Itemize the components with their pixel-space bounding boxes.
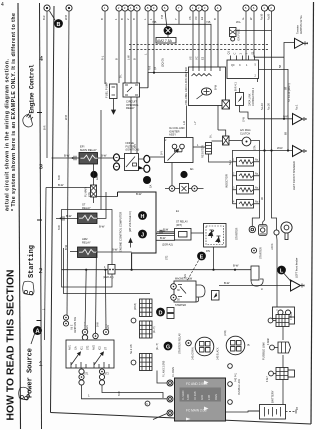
wire horizontal y187 (46, 187, 91, 189)
wire long vertical to fuel circuit (100, 110, 102, 210)
diode symbol 2 (216, 236, 221, 243)
wire igniter right to resistor (193, 146, 209, 148)
round connector A face (195, 337, 214, 356)
long wire y196 to ECU1 (97, 196, 118, 198)
svg-text:E2: E2 (200, 16, 204, 20)
white circled numbers (131, 318, 136, 365)
svg-text:4: 4 (39, 56, 43, 64)
vertical wire x46 down to switch area (45, 188, 47, 341)
svg-text:INJECTOR: INJECTOR (225, 174, 229, 188)
svg-text:B-W: B-W (112, 248, 118, 252)
igniter switch arm (168, 149, 179, 161)
svg-text:(2L-T): (2L-T) (153, 326, 156, 333)
svg-text:B-L: B-L (210, 134, 213, 138)
wire into relay3 (70, 251, 78, 253)
wire fusebox to link2 (282, 319, 284, 341)
svg-text:VC: VC (194, 16, 198, 20)
svg-text:STARTER: STARTER (235, 228, 239, 240)
svg-text:F AM2: F AM2 (267, 338, 270, 345)
svg-text:A: A (35, 329, 40, 335)
svg-text:W-R: W-R (283, 115, 289, 119)
speaker4 triangle top right (295, 38, 309, 48)
leader from circle1 to B (50, 11, 56, 20)
svg-text:IGN FUSE: IGN FUSE (237, 28, 241, 41)
engine control computer box top right (227, 60, 259, 79)
svg-text:3: 3 (39, 164, 43, 172)
circle stem comp2 (270, 345, 278, 350)
starter signal X component (223, 136, 230, 145)
wire from circle16 to ECC box (245, 11, 247, 60)
callout circle H (138, 211, 147, 220)
connector circle 16 (243, 5, 249, 11)
svg-text:W-L: W-L (236, 20, 242, 24)
circled junction number on wire (145, 401, 150, 406)
AM2 relay gray box (78, 247, 98, 258)
svg-text:B-W: B-W (58, 175, 61, 180)
wire ECC right to speaker feed (259, 69, 289, 150)
wire y72 cross run (148, 73, 189, 88)
VAFM resistor zigzag (192, 74, 212, 77)
ground dot EA right (143, 176, 151, 184)
ignition switch column labels (69, 344, 108, 350)
junction dot (287, 149, 289, 151)
wire stub fuse to run (167, 35, 169, 38)
svg-text:ST2: ST2 (105, 373, 110, 376)
ignition terminals above box (82, 329, 108, 340)
junction comb connector 1 (140, 299, 153, 317)
junction comb connector 2 (140, 321, 153, 338)
wire from circle2 down to ignition area (67, 11, 69, 316)
starter plunger hook (196, 285, 205, 302)
fusible link comp3 (276, 368, 295, 380)
injector No.3 (233, 186, 260, 195)
ECC pin stubs (231, 56, 255, 61)
igniter internal coil circles (172, 144, 177, 149)
wire ign col2 to ECU (102, 385, 163, 398)
ECU gray box (175, 378, 226, 421)
connector circle 9 (151, 5, 157, 11)
dash-dot line from E (187, 261, 199, 282)
A/C magnetic clutch label (240, 129, 251, 135)
svg-text:L-Y: L-Y (194, 121, 197, 125)
svg-text:RELAY: RELAY (126, 106, 135, 110)
svg-text:RESISTOR: RESISTOR (202, 145, 205, 158)
wire ECU right to battery (226, 411, 260, 412)
svg-text:R-B: R-B (149, 65, 152, 70)
speaker3 feed wire (219, 285, 291, 287)
injector tiny labels (255, 159, 261, 204)
wire from circle10 to fuse (165, 11, 167, 26)
connector circle 6 (128, 5, 134, 11)
svg-text:E: E (200, 255, 204, 261)
F40 F41 fusible labels (235, 372, 241, 395)
svg-text:2: 2 (39, 268, 43, 276)
fusebox with two circles (273, 307, 295, 319)
svg-text:B-W: B-W (136, 192, 142, 196)
wire bus down to starter motor shapes (253, 266, 255, 270)
svg-text:W-B: W-B (64, 15, 68, 20)
FL MAIN component (91, 185, 97, 203)
diagram frame right (311, 2, 314, 424)
svg-text:No.3: No.3 (255, 187, 261, 190)
svg-text:(2B-B): (2B-B) (134, 303, 137, 310)
FL MAIN label (84, 187, 91, 197)
fuel pump box (110, 84, 118, 99)
column tick between 4 and 3 (37, 112, 42, 114)
ECU right small circles (228, 364, 233, 405)
car icon power source (19, 387, 29, 400)
svg-text:EA1: EA1 (96, 175, 99, 180)
wire link2 to link3 (282, 355, 284, 368)
wire from circle14 to air flow meter (204, 11, 206, 67)
battery right dashed stub (286, 410, 297, 414)
svg-text:Y-B: Y-B (206, 20, 211, 24)
A/C clutch motor circle (242, 137, 251, 146)
svg-text:No.2: No.2 (255, 173, 261, 176)
ECU left terminal 3 (167, 410, 173, 416)
svg-text:R-W: R-W (163, 228, 169, 232)
svg-text:FUEL PUMP: FUEL PUMP (105, 82, 109, 98)
svg-text:FC MAIN 2.0B: FC MAIN 2.0B (186, 409, 207, 413)
svg-text:F/L MAIN: F/L MAIN (172, 367, 175, 377)
wire comb3 to terminal1 (157, 371, 167, 384)
svg-text:VS: VS (188, 16, 192, 20)
wire diode box to bus (213, 247, 215, 270)
svg-text:B-W: B-W (97, 322, 100, 327)
speaker2 feed wire (233, 150, 293, 152)
key ring symbol (281, 222, 292, 240)
connector circle 12 (190, 5, 196, 11)
wire horizontal upper Y-B run (148, 24, 211, 67)
junction dot (153, 72, 155, 74)
wire from circle7 (136, 11, 138, 153)
injector stub labels (233, 159, 235, 204)
connector circle 2 (66, 5, 72, 11)
wire from circle12 to air flow meter (192, 11, 194, 67)
svg-text:VC: VC (195, 56, 199, 60)
svg-text:I1A: I1A (75, 346, 78, 350)
diagram frame left (51, 6, 55, 413)
connector component on bus (108, 265, 115, 275)
wires ECU1 right side (156, 232, 175, 234)
svg-text:Y-B: Y-B (152, 20, 157, 24)
svg-text:F MAIN: F MAIN (290, 312, 293, 320)
ignition bottom contact ticks (71, 362, 109, 368)
svg-text:B: B (132, 18, 136, 20)
connector circle 17 (251, 5, 257, 11)
connector circle 4 (116, 5, 122, 11)
svg-text:E2: E2 (201, 56, 205, 60)
VAFM wiper arm (197, 93, 205, 99)
diode inner dashed box (206, 226, 224, 245)
svg-text:CLUTCH: CLUTCH (240, 132, 250, 135)
EFI main relay gray box (79, 153, 98, 165)
svg-text:FP: FP (155, 67, 158, 70)
ST relay gray box (78, 213, 98, 224)
wire relay1 down to FL component (93, 164, 95, 185)
ground dot under relay1 (90, 171, 97, 178)
svg-text:No.1: No.1 (295, 104, 299, 110)
measure arrow (129, 239, 132, 248)
battery box (260, 405, 286, 420)
svg-text:B: B (120, 18, 124, 20)
svg-text:No.2 J/B: No.2 J/B (130, 344, 133, 354)
connector circle 3 (102, 5, 108, 11)
circle stem comp1 (268, 318, 276, 323)
junction block enclosure (62, 210, 113, 288)
resistor vertical component (206, 143, 212, 155)
svg-text:ST2: ST2 (166, 255, 169, 260)
svg-text:CONNECTOR 1: CONNECTOR 1 (252, 87, 255, 106)
wire ign col1 to ECU terminal2 (82, 385, 167, 399)
tiny pin labels under top circles (42, 13, 271, 20)
assorted wire color labels middle (42, 53, 288, 310)
wire relay3 branch down (95, 252, 98, 334)
callout circle G (164, 342, 173, 351)
svg-text:VOLUME AIR FLOW METER: VOLUME AIR FLOW METER (184, 67, 188, 105)
svg-text:B: B (213, 18, 217, 20)
column tick between 2 and 1 (37, 320, 42, 322)
connector circle 19 (268, 5, 274, 11)
starter label texts (175, 278, 193, 308)
svg-text:STARTER RELAY: STARTER RELAY (178, 333, 182, 354)
svg-text:B-R: B-R (43, 125, 47, 130)
svg-text:VS: VS (189, 56, 193, 60)
connector circle 5 (122, 5, 128, 11)
check connector circle left (169, 186, 175, 192)
svg-text:No.1: No.1 (255, 159, 261, 162)
callout circle E (197, 252, 206, 261)
connector marks relay1 left (74, 156, 76, 160)
svg-text:B-W: B-W (118, 391, 121, 396)
I and E ignition sw label (71, 317, 78, 333)
title separator line (18, 3, 21, 429)
svg-text:68: 68 (284, 86, 288, 90)
wire circle15 to X component (218, 130, 226, 136)
svg-text:R-L: R-L (101, 55, 105, 60)
small component with X (222, 100, 230, 109)
pointing hand icon (23, 114, 33, 128)
svg-text:140 (GRAY): 140 (GRAY) (192, 347, 195, 360)
diode symbol 1 (209, 230, 215, 238)
check connector wires (165, 188, 204, 190)
svg-text:B-W: B-W (224, 281, 230, 285)
svg-text:B: B (133, 58, 137, 60)
svg-text:140 BLACK: 140 BLACK (217, 347, 220, 360)
ground symbol under fuel pump (112, 99, 116, 115)
svg-text:* The system shown here is an: * The system shown here is an EXAMPLE ON… (11, 13, 17, 211)
svg-text:(2L-T): (2L-T) (156, 343, 159, 350)
dashed bus line 1 (129, 44, 268, 46)
svg-text:B-W: B-W (64, 154, 70, 158)
header separator line (40, 3, 42, 429)
svg-text:J: J (141, 233, 144, 239)
callout circle J (138, 230, 147, 239)
connector round double circle (249, 226, 255, 232)
svg-text:B-L: B-L (120, 74, 123, 78)
wire relay1 to terminals (98, 157, 114, 159)
svg-text:ASSY: ASSY (169, 133, 176, 137)
svg-text:B-W: B-W (58, 183, 64, 187)
svg-text:EA: EA (150, 184, 153, 188)
svg-text:B-R: B-R (42, 15, 46, 20)
wire from circle9 (153, 11, 155, 73)
svg-text:B: B (57, 22, 61, 28)
svg-text:B-W: B-W (214, 84, 218, 90)
connector circle 8 (145, 5, 151, 11)
speaker2 triangle (293, 146, 307, 157)
svg-text:B-Y: B-Y (134, 144, 137, 148)
svg-text:AND: AND (201, 395, 204, 400)
wire into relay1 from frame (52, 157, 80, 159)
svg-text:4: 4 (1, 2, 4, 8)
dashed bus line 2 (129, 49, 268, 51)
fuse circle with X (164, 26, 173, 35)
connector circle 13 (196, 5, 202, 11)
starter terminal circles (171, 284, 177, 290)
connector circle 10 (162, 5, 168, 11)
small circle connector starter row (251, 248, 256, 253)
ECU left terminal 2 (167, 396, 173, 402)
svg-text:F/L AND 2.0RB: F/L AND 2.0RB (163, 360, 166, 377)
svg-text:RELAY: RELAY (82, 206, 91, 210)
engine control computer stepped outline (118, 192, 157, 270)
wire from circle13 to air flow meter (198, 11, 200, 67)
svg-text:(140): (140) (224, 330, 227, 336)
wire from circle8 (147, 11, 149, 88)
svg-text:HOW TO READ THIS SECTION: HOW TO READ THIS SECTION (6, 270, 17, 421)
svg-text:B-W: B-W (99, 225, 105, 229)
starter assembly box (174, 281, 196, 302)
transistor component (236, 88, 244, 112)
svg-text:RELAY: RELAY (82, 240, 91, 244)
volume air flow meter box (189, 67, 226, 106)
svg-text:STARTER: STARTER (259, 247, 263, 259)
svg-text:C: C (234, 53, 237, 55)
ignition bottom terminal circles col2 (99, 369, 104, 385)
svg-text:B-Y: B-Y (161, 151, 164, 155)
svg-text:AM2: AM2 (107, 324, 110, 330)
noise filter labels (126, 141, 140, 152)
svg-text:Y: Y (174, 18, 178, 20)
svg-text:Starting: Starting (28, 245, 36, 278)
wire relay3 right long (97, 251, 132, 253)
svg-text:H: H (141, 214, 145, 220)
svg-text:LOCK: LOCK (271, 243, 274, 250)
svg-text:B-W: B-W (160, 236, 166, 240)
VAFM pin stubs inside (193, 67, 220, 71)
wire from circle1 down to EFI relay feed (46, 11, 48, 158)
connector circle 1 (44, 5, 50, 11)
svg-text:Y-B: Y-B (160, 15, 164, 19)
tiny box pair right of D (167, 308, 174, 319)
svg-text:FL MAIN: FL MAIN (182, 390, 185, 400)
svg-text:W-R: W-R (277, 146, 283, 150)
circled A callout (33, 326, 42, 335)
wire from circle15 (217, 11, 219, 130)
wire clutch to injector right bus (251, 141, 260, 162)
injector bus vertical (232, 150, 234, 204)
fuse rating label box AM2 7.5A (156, 38, 176, 44)
wire X component to clutch (229, 140, 242, 142)
connector small circle with stem (274, 230, 279, 240)
small letters inside selected top circles (104, 6, 273, 10)
ignition bottom terminal circles col1 (79, 369, 84, 385)
wire resistor box to diode box (191, 232, 204, 234)
enclosure inner step line (64, 248, 151, 294)
svg-text:2.0B: 2.0B (208, 395, 211, 400)
speaker1 triangle (293, 114, 307, 125)
junction comb connector 3 (140, 354, 153, 371)
wire into relay2 (56, 217, 78, 219)
igniter box labels (169, 126, 185, 137)
connector circle 18 (261, 5, 267, 11)
callout circle D (156, 308, 165, 317)
ground dots pair near check connector (180, 171, 187, 178)
starter solenoid small box (212, 291, 220, 301)
svg-text:No10: No10 (260, 13, 264, 20)
round connector B face (226, 336, 245, 355)
svg-text:LEFT front fender: LEFT front fender (295, 258, 299, 278)
svg-text:L-W: L-W (127, 55, 131, 60)
circuit opening relay box (123, 83, 140, 97)
svg-text:AMP/ST/LS2 No.: AMP/ST/LS2 No. (300, 15, 303, 34)
igniter box (165, 138, 194, 163)
leader line to A (31, 334, 35, 344)
connector rounded square (259, 225, 268, 236)
wire VAFM to igniter (186, 106, 188, 138)
injector right bus (252, 162, 259, 227)
svg-text:B-W: B-W (66, 214, 72, 218)
svg-text:IG1: IG1 (81, 345, 84, 350)
wire from circle4 (118, 11, 120, 83)
svg-text:No20: No20 (267, 13, 271, 20)
svg-text:ST: ST (105, 346, 108, 350)
wire transistor to speaker1 (240, 112, 249, 119)
svg-text:No.1: No.1 (229, 159, 232, 165)
connector marks relay2 (62, 216, 64, 220)
small connector circle 140 gray (186, 340, 192, 346)
svg-text:IGNITION SW: IGNITION SW (74, 317, 77, 333)
svg-text:(2Q-D): (2Q-D) (161, 58, 165, 67)
svg-text:AM1: AM1 (69, 344, 72, 350)
resistor box starting labels (176, 221, 188, 227)
black callout circle B (50, 11, 63, 28)
resistor box with inner box (175, 229, 192, 241)
svg-text:ST 4.119 (WHT): ST 4.119 (WHT) (287, 83, 291, 102)
diode box (204, 224, 227, 248)
terminal oval pair left of noise filter (114, 154, 120, 161)
svg-text:C: C (239, 64, 241, 67)
injector No.4 (233, 200, 260, 209)
wire comp to circle19 column (236, 30, 272, 32)
svg-text:(2B VOLTAGE IC): (2B VOLTAGE IC) (128, 211, 132, 232)
svg-text:BATTERY: BATTERY (271, 390, 275, 403)
AM2 relay label (82, 237, 91, 244)
top connector circles row (44, 5, 275, 11)
ECU left terminal 1 (167, 380, 173, 386)
svg-text:No.10: No.10 (260, 103, 264, 110)
svg-text:D: D (159, 311, 163, 317)
EFI main relay label (80, 145, 97, 152)
svg-text:L-R: L-R (182, 121, 186, 125)
injector No.1 (233, 158, 260, 167)
VAFM damper oval (202, 88, 212, 95)
svg-text:FC 2RB: FC 2RB (194, 391, 197, 400)
wire link3 to battery (282, 380, 284, 405)
wire from circle3 (104, 11, 106, 84)
svg-text:B: B (248, 343, 250, 347)
